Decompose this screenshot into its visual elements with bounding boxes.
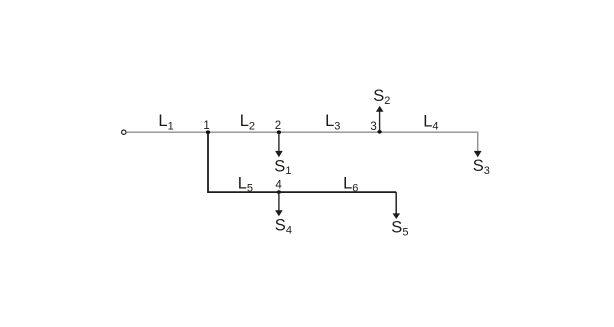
wire drop to S3 arrow — [477, 132, 479, 152]
svg-text:1: 1 — [203, 120, 209, 132]
wire main feeder L1-L4 horizontal — [126, 131, 477, 133]
arrow S1 at node 2 — [278, 133, 280, 152]
svg-text:3: 3 — [370, 121, 376, 133]
arrow S4 at node 4 — [278, 193, 280, 211]
wire branch from node 1 down and L5-L6 horizontal — [208, 133, 396, 193]
svg-text:4: 4 — [275, 179, 282, 191]
svg-text:2: 2 — [275, 120, 281, 132]
node 3 dot — [378, 130, 382, 134]
node 2 dot — [277, 130, 281, 134]
node 4 dot — [277, 190, 281, 194]
arrowhead S5 — [393, 213, 401, 219]
arrowhead S3 — [474, 151, 482, 157]
wire drop to S5 arrow — [395, 192, 397, 214]
arrow S2 at node 3 (upward) — [379, 111, 381, 131]
source circle (feeding point) — [122, 130, 126, 134]
node 1 dot — [206, 130, 210, 134]
